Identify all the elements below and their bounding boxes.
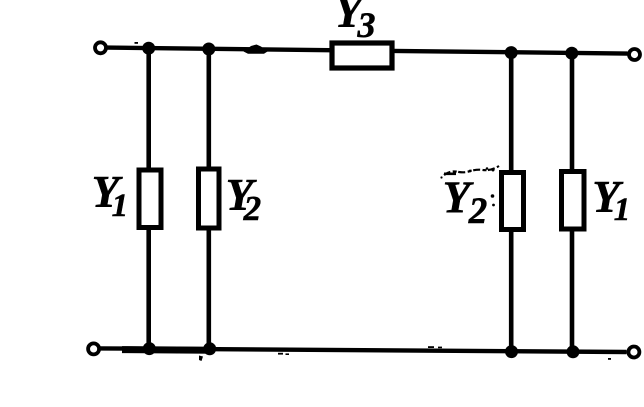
junction node bottom-3 — [505, 345, 518, 358]
wire top horizontal — [106, 48, 628, 54]
blemish smudge above right Y2 label — [440, 166, 499, 179]
label Y2 right — [443, 173, 488, 233]
wire branch 3 vertical — [509, 51, 514, 353]
junction node bottom-1 — [143, 342, 156, 355]
blemish rough edge on bottom wire right-middle — [428, 346, 442, 348]
svg-text:2: 2 — [468, 191, 488, 232]
label Y1 right — [592, 172, 630, 228]
junction node top-3 — [505, 46, 518, 59]
admittance Y2 right box — [502, 173, 524, 230]
wire bottom horizontal — [100, 348, 627, 352]
junction node bottom-2 — [203, 342, 216, 355]
junction node top-2 — [202, 43, 215, 56]
wire branch 2 vertical — [207, 48, 212, 350]
svg-text:2: 2 — [243, 189, 262, 228]
wire branch 4 vertical — [570, 52, 575, 353]
terminal top-left — [95, 42, 106, 53]
terminal bottom-right — [628, 347, 639, 358]
label Y3 — [335, 0, 376, 45]
terminal bottom-left — [88, 343, 99, 354]
svg-text:1: 1 — [614, 192, 631, 228]
junction node bottom-4 — [567, 345, 580, 358]
label Y2 left — [226, 170, 261, 228]
blemish bump on top wire — [244, 45, 268, 54]
junction node top-4 — [565, 47, 578, 60]
admittance Y2 left box — [199, 169, 220, 228]
wire bottom thickened segment between left junctions — [122, 346, 212, 354]
admittance Y3 series element box — [332, 43, 392, 68]
admittance Y1 right box — [562, 172, 585, 230]
blemish speck above top wire left — [135, 42, 139, 44]
blemish dashes below bottom wire — [278, 353, 289, 355]
terminal top-right — [629, 49, 640, 60]
svg-text:1: 1 — [112, 188, 129, 224]
blemish speck near bottom-right terminal — [608, 358, 611, 360]
blemish speck below bottom wire near branch 2 — [199, 356, 203, 362]
junction node top-1 — [142, 42, 155, 55]
label Y1 left — [92, 167, 128, 224]
svg-text:3: 3 — [357, 5, 376, 45]
wire branch 1 vertical — [146, 47, 151, 350]
blemish specks left of right Y2 box — [491, 169, 495, 207]
admittance Y1 left box — [139, 170, 161, 228]
